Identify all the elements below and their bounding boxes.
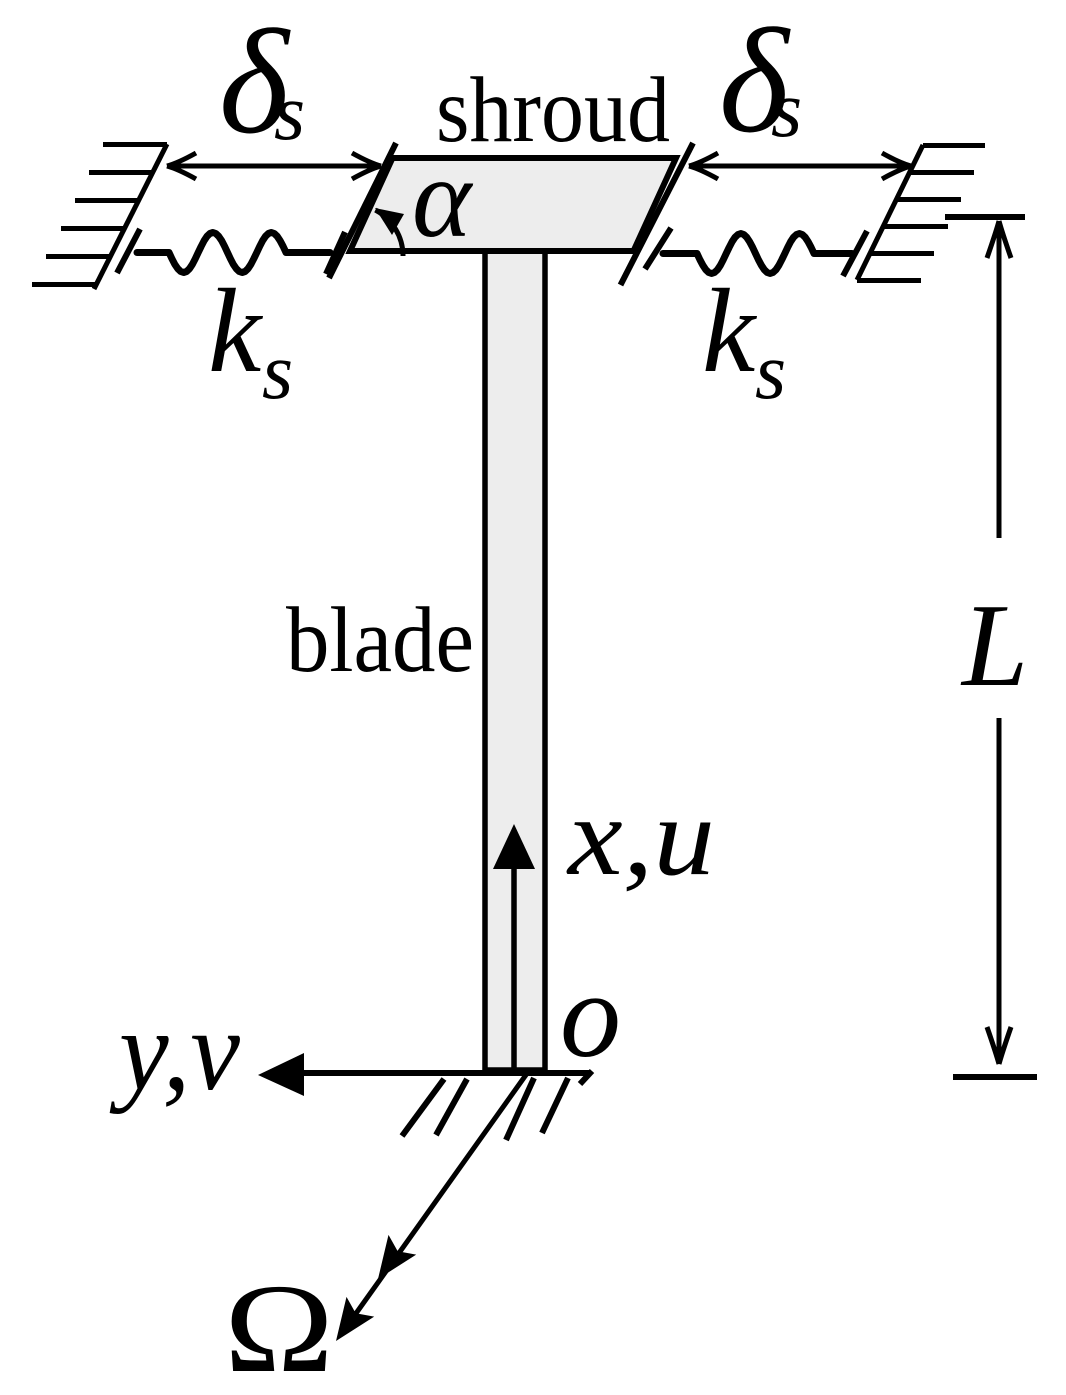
svg-text:x,u: x,u	[566, 775, 715, 899]
ground line / y,v axis	[300, 1070, 590, 1076]
svg-text:k: k	[702, 264, 758, 397]
svg-text:α: α	[412, 136, 474, 261]
spring left wall-side slash	[117, 229, 140, 273]
angle alpha arc	[375, 210, 403, 256]
right wall	[857, 145, 985, 281]
svg-text:L: L	[960, 579, 1028, 711]
spring right shroud-side slash	[645, 228, 671, 269]
svg-text:s: s	[274, 69, 305, 157]
blade	[485, 200, 545, 1070]
shroud left contact line	[329, 143, 396, 278]
svg-text:o: o	[560, 948, 621, 1083]
angle alpha arrowhead	[375, 208, 404, 235]
dimension L down arrow	[987, 718, 1011, 1064]
x,u axis arrow	[511, 865, 517, 1070]
ground hatching	[402, 1071, 592, 1140]
dimension L top tick	[945, 214, 1025, 220]
spring k_s left	[137, 233, 330, 273]
dim arrow delta_s right	[689, 153, 911, 179]
svg-text:s: s	[262, 328, 293, 416]
shroud right contact line	[621, 143, 694, 285]
dimension L up arrow	[987, 221, 1011, 538]
svg-text:s: s	[755, 328, 786, 416]
svg-text:k: k	[208, 264, 264, 397]
svg-text:Ω: Ω	[224, 1259, 334, 1390]
svg-text:blade: blade	[286, 589, 474, 692]
spring left shroud-side slash	[326, 232, 345, 274]
dimension L bottom tick	[953, 1074, 1037, 1080]
svg-text:y,v: y,v	[109, 987, 240, 1115]
dim arrow delta_s left	[167, 153, 381, 179]
shroud	[350, 158, 676, 251]
left wall	[32, 144, 167, 289]
svg-text:s: s	[771, 66, 802, 154]
spring right wall-side slash	[843, 231, 867, 276]
Omega rotation arrow	[352, 1072, 528, 1319]
spring k_s right	[663, 234, 852, 274]
